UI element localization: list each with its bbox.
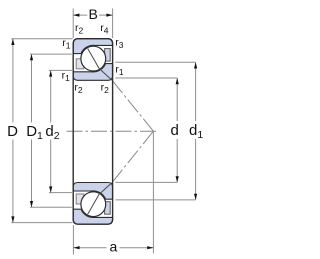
B extension line left [72,9,74,39]
B arrow left [73,14,79,17]
svg-text:D1: D1 [26,123,43,142]
d arrow top [176,78,179,84]
d extension line top [115,77,177,79]
a extension line left (bearing face) [72,225,74,255]
svg-text:r2: r2 [101,82,110,96]
bearing outline [73,39,112,225]
svg-text:r2: r2 [74,82,83,96]
svg-text:r1: r1 [115,64,124,78]
svg-text:D: D [7,123,18,140]
D1 arrow bottom [30,201,33,207]
D extension line top [11,38,72,40]
lower bearing section (mirrored) [73,182,112,224]
d2 extension line top [49,69,72,71]
D1 arrow top [30,54,33,60]
B dimension line [73,14,112,16]
a arrow right [147,246,153,249]
D1 dimension line [31,54,33,207]
a dimension line [73,247,153,249]
contact angle line upper [112,81,153,132]
upper bearing section [73,39,112,81]
svg-text:r1: r1 [62,69,71,83]
d extension line bottom [115,181,177,183]
d1 extension line bottom [115,199,195,201]
D1 extension line top [30,53,72,55]
d2 extension line bottom [49,192,72,194]
d1 arrow top [194,62,197,68]
contact angle line lower [112,131,153,182]
svg-text:r4: r4 [100,22,109,36]
svg-text:d2: d2 [45,123,59,142]
d1 dimension line [195,62,197,200]
svg-text:d: d [171,122,179,139]
svg-text:a: a [110,239,118,255]
a extension line right (load centre) [152,131,154,253]
B arrow right [106,14,112,17]
d1 extension line top [115,61,195,63]
d1 arrow bottom [194,194,197,200]
D arrow bottom [11,216,14,222]
a arrow left [73,246,79,249]
d2 arrow bottom [49,186,52,192]
D1 extension line bottom [30,206,72,208]
d2 arrow top [49,70,52,76]
svg-text:r3: r3 [115,36,124,50]
centre axis line [67,130,158,132]
svg-text:B: B [89,6,98,22]
svg-text:r2: r2 [75,22,84,36]
svg-text:d1: d1 [189,122,203,141]
d2 dimension line [50,70,52,192]
D arrow top [11,39,14,45]
D dimension line [12,39,14,223]
D extension line bottom [11,222,72,224]
d dimension line [176,78,178,182]
d arrow bottom [176,176,179,182]
B extension line right [112,9,114,39]
